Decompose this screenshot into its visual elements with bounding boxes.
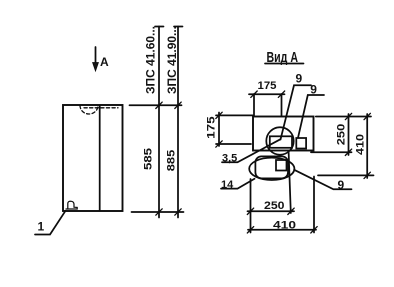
dim 175 left: line	[218, 113, 220, 147]
svg-text:175: 175	[258, 80, 277, 92]
svg-text:175: 175	[206, 116, 218, 139]
square 9 (upper)	[296, 138, 306, 149]
slot rounded rectangle	[255, 156, 288, 178]
svg-text:9: 9	[296, 72, 303, 86]
panel outline (left view)	[63, 105, 123, 211]
corner detail item 1	[66, 201, 77, 209]
leader 9 upper-left	[281, 85, 312, 139]
extension through slot (right edge of 250)	[289, 152, 291, 214]
dim 250 bottom: line	[248, 210, 295, 212]
plate outline	[253, 117, 314, 151]
elevation line ZPS 41.60	[158, 27, 160, 218]
svg-text:250: 250	[336, 124, 348, 146]
dim 175 left: ticks	[216, 112, 222, 118]
square 9 (in slot)	[276, 160, 287, 171]
svg-text:410: 410	[355, 134, 367, 155]
svg-text:9: 9	[310, 83, 317, 97]
dim 410 right: line	[366, 114, 368, 178]
slot oval outline	[249, 158, 294, 180]
svg-text:1: 1	[38, 220, 45, 234]
dim 175 top: line	[249, 93, 285, 95]
svg-text:14: 14	[221, 179, 234, 191]
svg-text:250: 250	[264, 200, 285, 212]
leader 14	[221, 179, 255, 189]
view arrow A head	[93, 63, 99, 72]
leader for item 1	[35, 211, 66, 235]
leader 3,5	[222, 139, 280, 162]
svg-text:ЗПС 41.90...: ЗПС 41.90...	[165, 26, 179, 94]
dim 250 right: line	[348, 114, 350, 155]
extension line top (left view dims)	[130, 104, 182, 106]
dim 175 left: extension lines	[216, 114, 253, 116]
svg-text:ЗПС 41.60...: ЗПС 41.60...	[144, 26, 158, 94]
right extension lines	[316, 116, 371, 118]
extension line bottom (left view dims)	[132, 211, 184, 213]
svg-text:Вид А: Вид А	[267, 50, 299, 66]
dim ticks left view	[156, 102, 181, 215]
right dim ticks	[345, 113, 370, 178]
inner rectangle in circle	[270, 136, 292, 148]
dim 410 bottom: line	[248, 229, 316, 231]
leader 9 lower-right	[294, 170, 351, 190]
dim 175 top: ticks	[251, 91, 257, 97]
bottom extension verticals	[250, 179, 252, 233]
svg-text:410: 410	[273, 219, 296, 231]
svg-text:585: 585	[143, 148, 155, 170]
svg-text:885: 885	[166, 150, 178, 172]
circle detail	[266, 127, 293, 154]
panel joint line	[99, 106, 101, 211]
hidden line (dashed) below top edge	[84, 107, 118, 109]
leader 9 upper-right	[298, 95, 324, 138]
elevation line ZPS 41.90	[177, 27, 179, 218]
svg-text:А: А	[100, 55, 109, 69]
svg-text:3,5: 3,5	[222, 152, 237, 164]
dim 175 top: extension lines	[253, 94, 255, 116]
view arrow A shaft	[95, 47, 97, 64]
hidden semicircle (dashed)	[80, 106, 98, 115]
title underline	[265, 63, 304, 65]
bottom dim ticks	[247, 208, 317, 233]
svg-text:9: 9	[338, 178, 345, 192]
